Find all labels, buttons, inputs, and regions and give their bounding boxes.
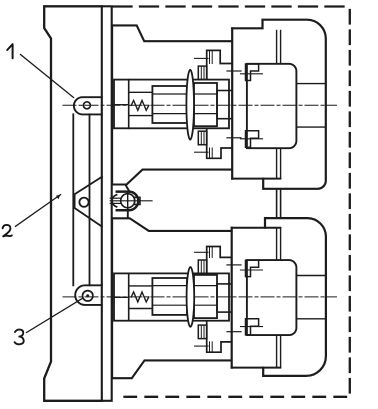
leader line 1 [21, 55, 74, 98]
leader line 3 [27, 298, 84, 333]
label 3 [15, 330, 24, 345]
top carriage top profile [112, 25, 232, 41]
top key upper [198, 66, 207, 80]
link 2 left edge [72, 114, 74, 285]
top cylinder cap line [128, 80, 130, 129]
top T-clamp upper [207, 50, 233, 79]
bottom rod guides [129, 285, 153, 287]
top carriage left edge [111, 25, 113, 184]
bottom spring [131, 292, 149, 302]
bottom shaft lines [152, 285, 217, 287]
gusset hole [79, 198, 88, 207]
bottom cylinder box [114, 273, 229, 320]
top housing outline [232, 20, 326, 189]
pivot block 3 [75, 285, 102, 305]
top flange face [231, 28, 233, 178]
gusset boss on link [75, 177, 102, 227]
top rod guides [129, 91, 153, 93]
top flange ticks [227, 70, 241, 72]
label 2 [3, 225, 12, 236]
bottom key ticks [195, 251, 208, 253]
top housing clamp upper [246, 64, 259, 81]
label 1 [7, 44, 12, 58]
bottom step block [217, 284, 232, 312]
bottom key lower [198, 325, 207, 339]
top cavity bottom [232, 178, 280, 180]
bottom T-clamp upper [207, 247, 232, 274]
bottom cylinder cap line [128, 273, 130, 320]
bottom carriage top profile [112, 218, 231, 231]
top T-clamp lower [207, 128, 233, 158]
bottom cavity top [232, 227, 281, 229]
connecting rod between housings [276, 189, 278, 218]
bottom key upper [198, 260, 207, 274]
bottom carriage left edge [111, 218, 113, 378]
top housing clamp lower [246, 131, 259, 148]
top piston block [152, 86, 187, 123]
bottom studs [276, 228, 278, 260]
bottom piston block [152, 278, 187, 315]
bottom housing clamp upper [246, 260, 259, 276]
leader line 2 [16, 195, 61, 227]
column [44, 6, 102, 401]
bottom carriage bottom profile [112, 360, 231, 378]
top block2 [194, 83, 217, 126]
pivot pin 3 [83, 291, 93, 301]
top pocket lines [296, 83, 325, 85]
pivot pin 1 [83, 102, 90, 109]
centerline bottom spindle [63, 296, 337, 298]
top spring [131, 100, 149, 110]
top key ticks [195, 57, 208, 59]
guide bar [102, 6, 112, 401]
bottom T-clamp lower [207, 322, 232, 352]
bottom housing clamp lower [246, 319, 259, 335]
top cylinder box [114, 80, 229, 129]
top shaft lines [152, 93, 217, 95]
detent roller unit [110, 185, 152, 217]
top key lower [198, 131, 207, 145]
top disc [186, 70, 194, 140]
top studs [276, 31, 278, 64]
top step block [217, 91, 232, 119]
machine envelope dashed border [114, 5, 350, 7]
bottom piston pad [247, 260, 297, 335]
link 2 right edge [89, 114, 91, 285]
bottom flange ticks [227, 264, 241, 266]
centerline top spindle [63, 104, 337, 106]
bottom block2 [194, 275, 217, 318]
top piston pad [247, 64, 297, 148]
bottom cavity bottom [232, 367, 281, 369]
bottom housing outline [263, 218, 326, 376]
top carriage bottom profile [112, 170, 232, 185]
bottom disc [187, 267, 195, 327]
pivot block 1 [74, 97, 102, 114]
bottom flange face [231, 228, 233, 368]
bottom pocket lines [296, 275, 326, 277]
